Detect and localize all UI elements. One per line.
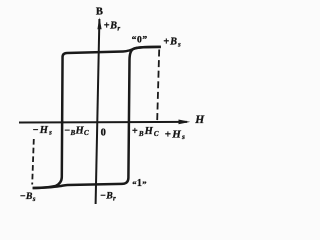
svg-text:H: H [194, 114, 205, 126]
svg-text:“0”: “0” [132, 34, 148, 45]
svg-text:“1”: “1” [132, 178, 147, 189]
svg-text:0: 0 [101, 127, 106, 138]
svg-text:B: B [96, 7, 103, 18]
